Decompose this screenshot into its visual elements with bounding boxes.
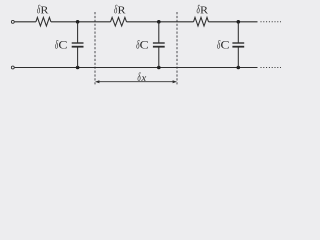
wire top rail: R1 to R2 <box>51 21 111 23</box>
dimension line dx <box>99 81 174 83</box>
label dR1 <box>37 5 48 14</box>
input terminal bottom-left <box>11 66 14 69</box>
label dC2 <box>136 40 148 49</box>
wire bottom rail <box>15 67 258 69</box>
input terminal top-left <box>11 20 14 23</box>
capacitor C1 <box>72 22 84 68</box>
dotted continuation bottom rail <box>261 67 282 69</box>
label dC3 <box>217 40 229 49</box>
resistor R1 <box>36 17 51 26</box>
node dot top 1 <box>76 20 80 24</box>
resistor R2 <box>111 17 127 26</box>
dashed cut line left (x=95) <box>94 12 96 85</box>
node dot top 2 <box>157 20 161 24</box>
node dot bottom 1 <box>76 66 80 70</box>
capacitor C3 <box>232 22 244 68</box>
dimension arrowhead right <box>173 80 177 83</box>
dimension arrowhead left <box>95 80 99 83</box>
label dR2 <box>114 5 125 14</box>
resistor R3 <box>194 17 209 26</box>
node dot top 3 <box>237 20 241 24</box>
wire top rail: terminal to R1 <box>15 21 36 23</box>
wire top rail: R2 to R3 <box>127 21 194 23</box>
label dR3 <box>197 5 208 14</box>
capacitor C2 <box>153 22 165 68</box>
label dC1 <box>55 40 67 49</box>
node dot bottom 3 <box>237 66 241 70</box>
dotted continuation top rail <box>261 21 282 23</box>
wire top rail: R3 to right end <box>209 21 258 23</box>
dashed cut line right (x=177) <box>176 12 178 85</box>
node dot bottom 2 <box>157 66 161 70</box>
label dx <box>138 72 147 81</box>
